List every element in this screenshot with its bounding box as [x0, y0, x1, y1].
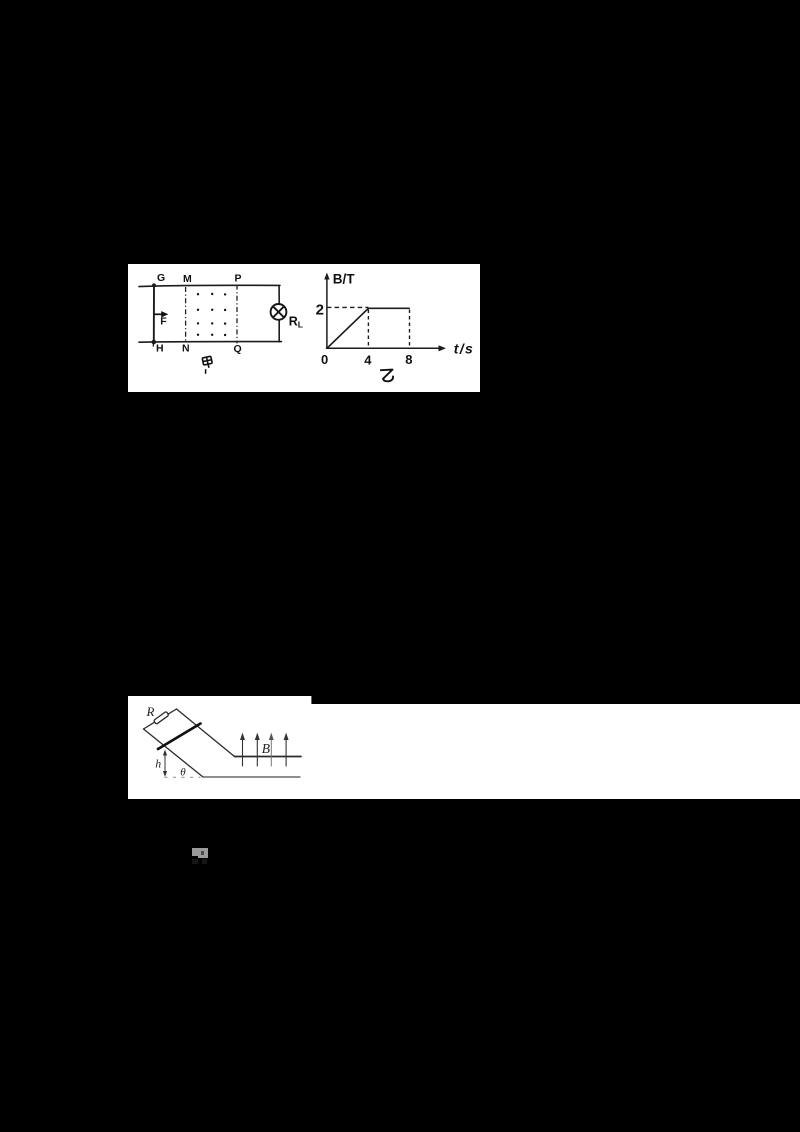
- conducting rod GH: [153, 285, 155, 342]
- resistor R body: [154, 711, 169, 724]
- figure 1 white panel: rod-on-rails circuit with lamp + B-t graph: [128, 264, 480, 392]
- lower rail down the incline: [144, 729, 204, 777]
- wire right vertical upper: [278, 286, 280, 305]
- panel background right (notched top): [311, 704, 800, 799]
- svg-text:F: F: [160, 315, 167, 327]
- dashed drop at t=8: [409, 310, 411, 349]
- B field arrow 1: [240, 733, 245, 767]
- dashed level B=2: [327, 306, 369, 308]
- force F arrow on rod: [154, 313, 163, 315]
- figure 2 white band: incline with rod, R, and horizontal B-field region: [128, 696, 800, 799]
- height h double arrow: [164, 753, 166, 774]
- ground line horizontal: [203, 776, 300, 778]
- svg-text:B/T: B/T: [333, 271, 356, 286]
- caption jiǎ (figure 1 marker): [202, 356, 213, 369]
- incline top edge wire segment resistor-to-apex: [168, 709, 177, 714]
- upper rail down the incline: [177, 709, 235, 757]
- B field arrow 4: [284, 733, 289, 767]
- svg-text:h: h: [155, 758, 161, 770]
- svg-text:t/s: t/s: [454, 341, 474, 357]
- graph B axis (vertical): [326, 277, 328, 349]
- caption yǐ (figure 2 marker): [381, 370, 393, 382]
- graph t axis (horizontal): [326, 347, 440, 349]
- field boundary PQ dash-dot line: [236, 285, 238, 344]
- wire right vertical lower: [278, 320, 280, 342]
- node G junction dot: [152, 283, 156, 287]
- small gray artifact blob: [192, 848, 208, 856]
- B field arrow 3 (lighter): [269, 733, 274, 767]
- svg-text:P: P: [235, 273, 242, 285]
- svg-text:R: R: [289, 314, 298, 328]
- flux dots grid (B out of page): [197, 293, 227, 336]
- B(t) flat segment: [368, 307, 409, 309]
- svg-text:L: L: [298, 319, 303, 329]
- svg-text:8: 8: [405, 352, 412, 367]
- svg-text:4: 4: [364, 352, 372, 367]
- B field arrow 2: [255, 733, 260, 767]
- svg-text:M: M: [183, 273, 192, 285]
- svg-text:B: B: [262, 741, 270, 756]
- wire bottom rail HQ: [139, 341, 282, 344]
- incline top edge wire segment B-to-resistor: [144, 722, 155, 729]
- upper rail horizontal section: [235, 756, 302, 758]
- lamp RL (circle with X): [271, 304, 287, 320]
- svg-text:0: 0: [321, 352, 328, 367]
- field boundary MN dash-dot line: [185, 287, 187, 342]
- ground level dashes under theta: [165, 776, 201, 778]
- svg-text:R: R: [146, 704, 155, 719]
- sliding rod on incline: [158, 724, 201, 750]
- panel background left (taller): [128, 696, 311, 799]
- svg-text:H: H: [156, 343, 164, 355]
- svg-text:Q: Q: [234, 343, 242, 355]
- wire top rail GP: [139, 285, 280, 286]
- svg-text:N: N: [182, 342, 190, 354]
- B(t) ramp segment: [327, 308, 369, 348]
- svg-text:G: G: [157, 272, 165, 284]
- node H junction dot: [152, 340, 157, 345]
- dashed drop at t=4: [367, 310, 369, 349]
- svg-text:2: 2: [316, 302, 324, 319]
